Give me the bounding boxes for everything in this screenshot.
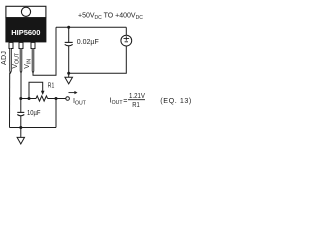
current direction arrow <box>69 92 76 94</box>
body <box>5 18 46 43</box>
wire source bottom to ground node <box>69 46 127 73</box>
R1 wiper loop with arrow <box>29 82 43 98</box>
svg-text:0.02µF: 0.02µF <box>77 39 99 46</box>
svg-text:(EQ. 13): (EQ. 13) <box>160 96 192 105</box>
ground GND2 stem <box>20 128 22 138</box>
svg-text:ADJ: ADJ <box>1 51 8 65</box>
lead stubs <box>9 42 13 48</box>
capacitor C2 10uF <box>17 112 24 115</box>
wire VOUT node down to capacitor C2 <box>20 99 22 113</box>
capacitor C1 0.02uF <box>65 42 73 45</box>
wire bottom rail <box>10 127 57 129</box>
pin 2 lead VOUT <box>20 49 22 74</box>
wire VIN pin right and up to top rail <box>33 27 56 75</box>
svg-text:IOUT: IOUT <box>110 95 124 106</box>
wire C1 bottom to ground junction <box>68 46 70 77</box>
svg-text:R1: R1 <box>48 82 55 89</box>
equation IOUT = 1.21V / R1 <box>110 91 192 109</box>
svg-text:+50VDC TO +400VDC: +50VDC TO +400VDC <box>78 12 143 20</box>
junction dot wiper node <box>28 97 31 100</box>
wire VOUT pin down to node row <box>20 73 22 99</box>
svg-text:IOUT: IOUT <box>73 96 87 106</box>
ground GND1 <box>65 77 73 84</box>
DC source V1 circle with polarity <box>121 35 132 46</box>
svg-text:=: = <box>123 96 127 105</box>
pin 1 lead ADJ <box>10 49 12 74</box>
junction dot source return / ground <box>67 72 70 75</box>
IC U1 HIP5600 TO-220 package <box>5 6 46 73</box>
wire ADJ pin down to bottom rail <box>9 73 11 128</box>
tab with mounting hole <box>6 6 46 17</box>
node row wire VOUT to R1 <box>21 98 36 100</box>
svg-text:10µF: 10µF <box>27 110 41 117</box>
junction dot top rail / C1 <box>67 26 70 29</box>
svg-text:R1: R1 <box>132 100 140 109</box>
wire top rail <box>56 26 126 28</box>
svg-text:VOUT: VOUT <box>12 52 20 68</box>
pin 3 lead VIN <box>32 49 34 74</box>
junction dot output node <box>55 97 58 100</box>
junction dot VOUT node <box>19 97 22 100</box>
svg-text:VIN: VIN <box>24 59 32 69</box>
wire output node down to bottom rail <box>55 99 57 128</box>
junction dot bottom rail / ground <box>19 126 22 129</box>
ground GND2 <box>17 137 24 144</box>
wire top rail down to capacitor C1 <box>68 27 70 42</box>
wire C2 bottom to bottom rail <box>20 116 22 128</box>
output terminal circle <box>66 97 70 101</box>
resistor R1 zigzag <box>36 96 48 101</box>
wire R1 to output terminal <box>48 98 66 100</box>
wire source top stub <box>125 27 127 35</box>
svg-text:HIP5600: HIP5600 <box>11 28 40 37</box>
